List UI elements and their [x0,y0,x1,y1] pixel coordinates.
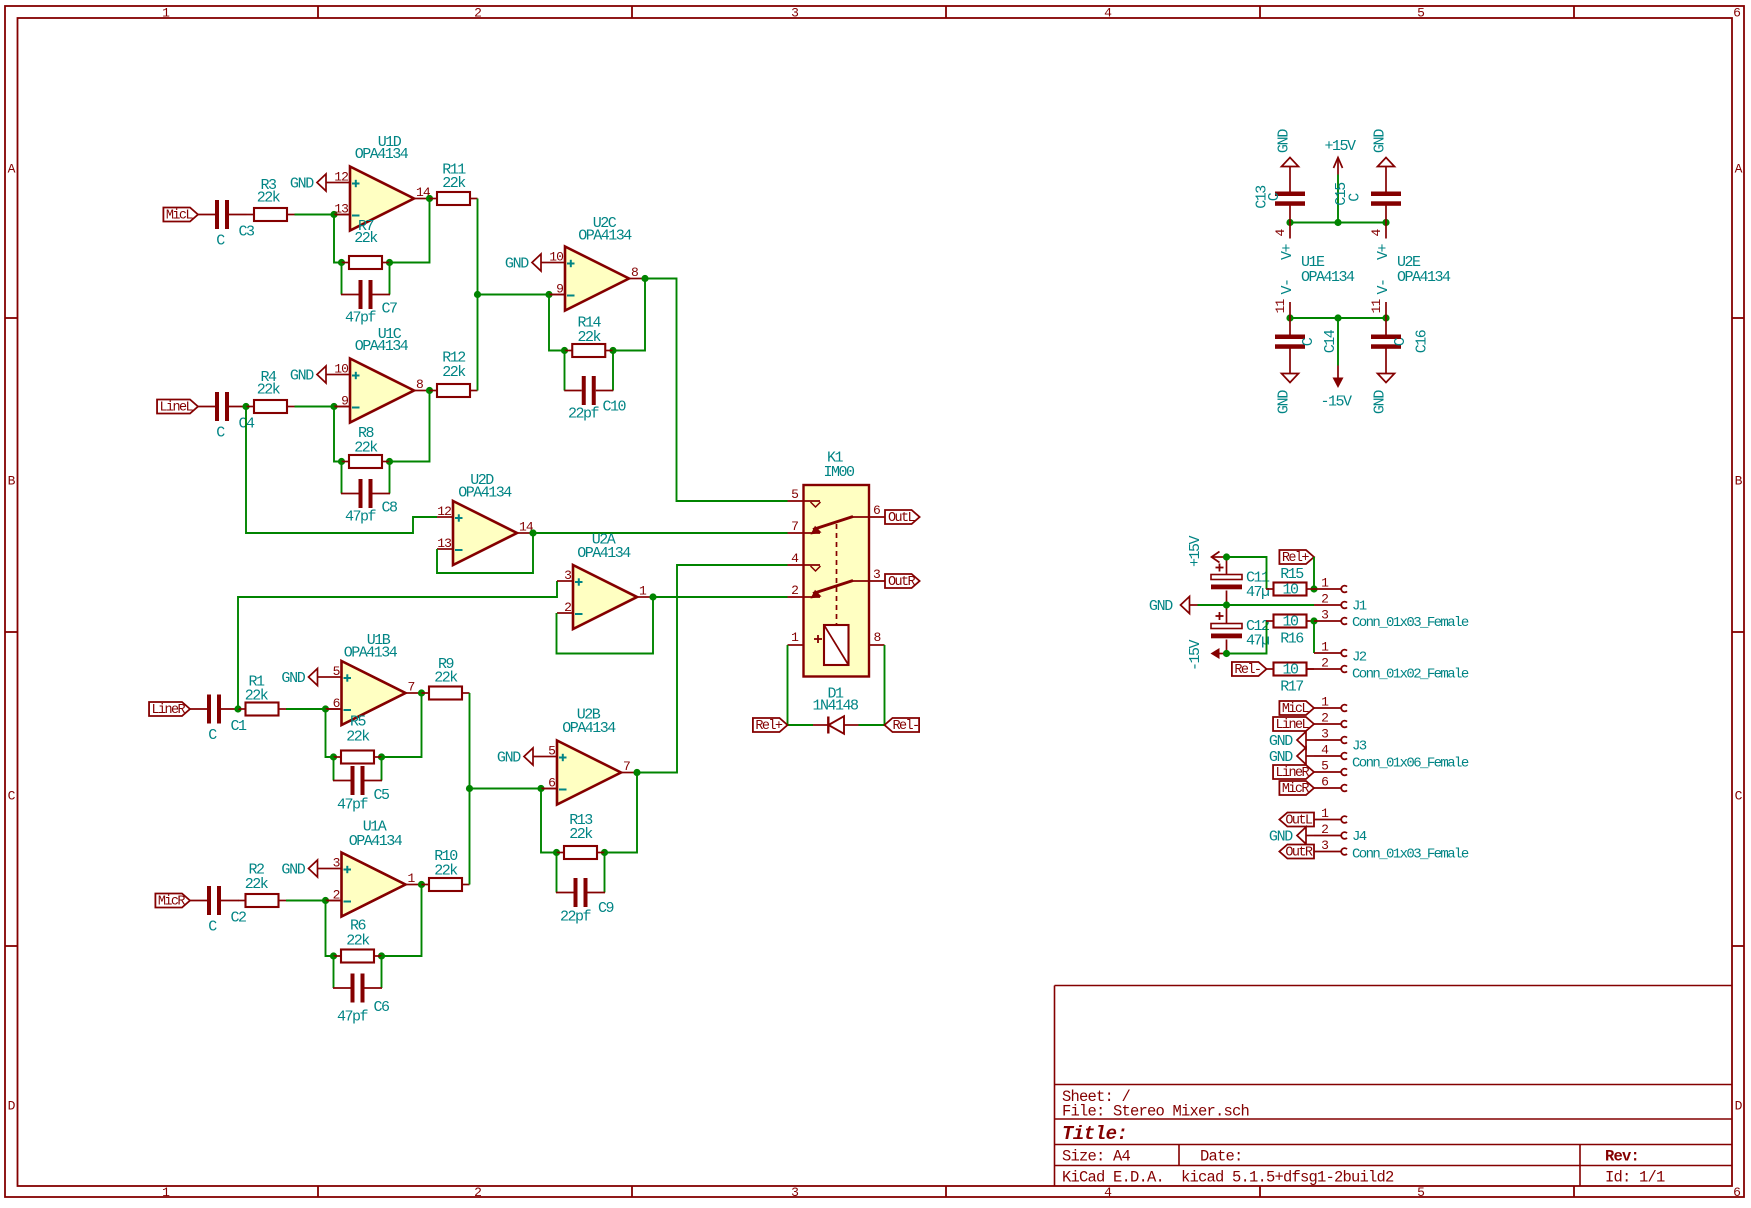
svg-text:C: C [216,233,225,250]
op-amp U1E power unit [1273,223,1355,319]
svg-text:2: 2 [1321,822,1328,837]
svg-text:10: 10 [1282,582,1299,599]
svg-text:OPA4134: OPA4134 [578,228,632,245]
svg-text:47pf: 47pf [337,797,369,814]
wire [1337,175,1339,223]
node left sum [474,291,481,298]
svg-text:C3: C3 [239,224,256,241]
junction [1382,314,1389,321]
power symbol GND [1276,366,1299,415]
wire feedback to output [390,199,430,263]
global label Rel- [885,718,920,734]
node U1C inverting input [330,403,337,410]
wire [334,407,342,462]
svg-text:1: 1 [639,584,647,599]
svg-text:Size: A4: Size: A4 [1062,1148,1131,1166]
wire feedback to output [382,885,422,957]
power symbol -15V (rotated) [1187,640,1227,672]
power symbol GND [1269,732,1314,751]
svg-text:10: 10 [1282,662,1299,679]
svg-text:Conn_01x06_Female: Conn_01x06_Female [1352,756,1469,772]
svg-text:2: 2 [791,583,798,598]
svg-text:2: 2 [474,1185,482,1200]
node LineL [242,403,249,410]
wire [859,645,885,725]
wire [295,214,335,216]
svg-text:C1: C1 [231,718,248,735]
svg-text:OutR: OutR [888,575,916,590]
svg-text:2: 2 [1321,592,1328,607]
wire [557,597,654,654]
pin J2-2 [1314,656,1347,673]
svg-text:LineR: LineR [152,703,186,718]
power symbol GND [505,254,549,273]
resistor R12 [430,350,478,398]
svg-text:J4: J4 [1352,829,1367,845]
capacitor C14 [1275,318,1339,366]
global label Rel+ [753,718,788,734]
junction [386,458,393,465]
capacitor C3 [198,200,256,250]
junction [553,849,560,856]
global label MicL [1279,701,1314,717]
svg-text:OPA4134: OPA4134 [355,146,409,163]
power symbol GND [290,366,334,385]
svg-text:Date:: Date: [1200,1148,1243,1166]
svg-text:R16: R16 [1280,631,1304,648]
global label MicR [1279,781,1314,797]
svg-text:5: 5 [548,744,555,759]
svg-text:22pf: 22pf [568,406,600,423]
wire feedback to output [382,693,422,757]
svg-text:1: 1 [162,6,170,21]
svg-text:22k: 22k [354,440,378,457]
capacitor C1 [190,695,248,745]
svg-text:File: Stereo Mixer.sch: File: Stereo Mixer.sch [1062,1103,1249,1121]
svg-text:D: D [1735,1099,1743,1114]
svg-text:GND: GND [1149,598,1173,615]
svg-text:LineR: LineR [1276,766,1310,781]
wire [541,789,557,853]
svg-text:OPA4134: OPA4134 [1397,269,1451,286]
svg-text:7: 7 [791,519,798,534]
resistor R14 [565,315,613,358]
wire feedback to output [613,279,645,351]
wire [564,351,566,391]
capacitor C8 [341,479,398,526]
connector J1 [1352,599,1469,632]
svg-text:A: A [8,162,16,177]
pin J1-3 [1314,608,1347,625]
wire [437,533,533,573]
svg-text:OPA4134: OPA4134 [577,545,631,562]
junction [378,753,385,760]
svg-text:GND: GND [1269,733,1293,750]
power symbol GND [1372,366,1395,415]
wire [549,295,565,351]
svg-text:GND: GND [290,176,314,193]
svg-text:2: 2 [333,888,340,903]
wire pin stub [549,294,565,296]
svg-text:OutL: OutL [1285,814,1313,829]
svg-text:8: 8 [416,377,423,392]
capacitor C5 [333,766,390,814]
pin J1-1 [1314,576,1347,593]
junction [338,458,345,465]
svg-text:LineL: LineL [1276,718,1310,733]
global label MicR [155,894,190,910]
svg-text:D: D [8,1099,16,1114]
capacitor C11 [1211,557,1270,605]
wire [1313,557,1315,589]
wire [469,693,471,885]
svg-text:Rel-: Rel- [1234,663,1260,678]
wire [470,788,542,790]
node U1D inverting input [330,211,337,218]
svg-text:KiCad E.D.A. kicad 5.1.5+dfsg: KiCad E.D.A. kicad 5.1.5+dfsg1-2build2 [1062,1169,1394,1187]
resistor R7 [342,218,390,269]
power symbol +15V [1324,138,1356,175]
svg-text:1: 1 [1321,640,1329,655]
junction [1310,617,1317,624]
wire [1313,621,1315,653]
power symbol GND [281,669,325,688]
svg-text:3: 3 [333,856,340,871]
global label OutR [1279,845,1314,861]
global label OutL [1279,813,1314,829]
svg-text:6: 6 [1733,1185,1741,1200]
junction [338,259,345,266]
svg-text:2: 2 [564,600,571,615]
svg-text:+15V: +15V [1187,536,1204,568]
wire [246,407,437,534]
node U1B output [418,689,425,696]
svg-text:B: B [8,474,16,489]
svg-text:A: A [1735,162,1743,177]
svg-text:OPA4134: OPA4134 [344,645,398,662]
wire pin stub [326,708,342,710]
wire [645,279,788,502]
power symbol GND [1269,827,1314,846]
capacitor C7 [341,280,397,327]
resistor R2 [238,862,286,908]
wire [1227,557,1267,589]
svg-text:2: 2 [474,6,482,21]
wire [381,956,383,988]
global label LineR [1273,765,1314,781]
resistor R11 [430,162,478,206]
wire [333,956,335,988]
svg-text:V-: V- [1279,279,1296,294]
svg-text:13: 13 [334,202,348,217]
power symbol GND [290,174,334,193]
svg-text:GND: GND [505,256,529,273]
node U2C output [641,275,648,282]
svg-text:3: 3 [791,1185,799,1200]
wire [533,532,788,534]
wire pin stub [541,788,557,790]
svg-text:12: 12 [437,504,451,519]
wire pin stub [334,406,350,408]
svg-text:C14: C14 [1322,329,1339,353]
svg-text:GND: GND [1372,390,1389,414]
svg-text:4: 4 [1369,228,1384,236]
svg-text:1: 1 [1321,695,1329,710]
junction [330,952,337,959]
svg-text:47pf: 47pf [337,1009,369,1026]
svg-text:10: 10 [549,250,563,265]
svg-text:Title:: Title: [1062,1123,1127,1145]
op-amp U1A [326,819,422,917]
resistor R4 [247,369,295,413]
svg-text:47pf: 47pf [345,310,377,327]
svg-text:22pf: 22pf [560,909,592,926]
svg-text:C: C [8,789,16,804]
svg-text:C5: C5 [374,787,391,804]
capacitor C4 [198,392,256,442]
capacitor C16 [1371,318,1431,366]
power symbol GND [1372,129,1395,175]
wire pin stub [326,900,342,902]
svg-text:C6: C6 [374,999,391,1016]
svg-text:2: 2 [1321,711,1328,726]
title block [1055,986,1733,1187]
pin J4-2 [1314,822,1347,839]
node U2C inverting input [545,291,552,298]
svg-text:Conn_01x03_Female: Conn_01x03_Female [1352,847,1469,863]
svg-text:GND: GND [290,368,314,385]
svg-text:4: 4 [1273,228,1288,236]
junction [1286,219,1293,226]
pin J3-5 [1314,759,1347,776]
wire [604,853,606,893]
svg-text:OPA4134: OPA4134 [458,485,512,502]
svg-text:B: B [1735,474,1743,489]
svg-text:Id: 1/1: Id: 1/1 [1605,1169,1665,1187]
svg-text:GND: GND [281,862,305,879]
wire [341,263,343,295]
global label Rel+ [1279,550,1314,566]
svg-text:C: C [208,919,217,936]
wire [1227,621,1267,654]
svg-text:5: 5 [333,664,340,679]
svg-text:5: 5 [1417,1185,1425,1200]
svg-text:22k: 22k [442,175,466,192]
capacitor C15 [1333,175,1401,223]
op-amp U1B [326,632,422,725]
global label LineL [1273,717,1314,733]
global label MicL [163,208,198,224]
svg-text:IM00: IM00 [823,464,855,481]
junction [1286,314,1293,321]
resistor R16 [1266,614,1314,648]
svg-text:22k: 22k [257,190,281,207]
op-amp U2D [437,472,534,565]
svg-text:22k: 22k [257,382,281,399]
node U2D output [529,529,536,536]
node U1A inverting input [322,897,329,904]
wire [341,462,343,494]
svg-text:5: 5 [1417,6,1425,21]
junction [386,259,393,266]
pin J3-2 [1314,711,1347,728]
svg-text:47pf: 47pf [345,509,377,526]
svg-text:MicR: MicR [1282,782,1310,797]
pin J2-1 [1314,640,1347,657]
capacitor C2 [190,886,247,936]
wire [653,596,788,598]
svg-text:5: 5 [791,487,798,502]
svg-text:1: 1 [791,630,799,645]
svg-text:22k: 22k [354,230,378,247]
resistor R15 [1266,566,1314,599]
svg-text:1: 1 [1321,576,1329,591]
svg-text:-15V: -15V [1320,394,1352,411]
node U1D output [426,195,433,202]
svg-text:22k: 22k [569,826,593,843]
global label LineL [157,400,198,416]
node U2B inverting input [537,785,544,792]
svg-text:J2: J2 [1352,650,1367,666]
svg-text:3: 3 [1321,608,1328,623]
op-amp U2A [557,532,653,630]
wire [477,199,479,391]
svg-text:Rev:: Rev: [1605,1148,1639,1166]
svg-text:Rel+: Rel+ [755,719,783,734]
wire [612,351,614,391]
svg-text:J3: J3 [1352,739,1367,755]
capacitor C13 [1254,175,1306,223]
svg-text:8: 8 [631,265,638,280]
svg-text:7: 7 [623,759,630,774]
svg-text:22k: 22k [346,729,370,746]
junction [1223,650,1230,657]
svg-text:Conn_01x02_Female: Conn_01x02_Female [1352,667,1469,683]
junction [1334,219,1341,226]
svg-text:OPA4134: OPA4134 [1301,269,1355,286]
svg-text:GND: GND [1372,129,1389,153]
svg-text:22k: 22k [577,329,601,346]
power symbol -15V [1320,366,1352,411]
svg-text:4: 4 [791,551,799,566]
pin J3-4 [1314,743,1347,760]
junction [1223,553,1230,560]
wire [389,462,391,494]
pin J4-1 [1314,806,1347,823]
wire [1290,317,1386,319]
svg-text:OutR: OutR [1285,846,1313,861]
svg-text:22k: 22k [245,876,269,893]
global label Rel- [1232,662,1267,678]
svg-text:R15: R15 [1280,566,1304,583]
wire [1198,604,1315,606]
svg-text:12: 12 [334,170,348,185]
power symbol GND [1276,129,1299,175]
svg-text:6: 6 [1321,775,1328,790]
svg-text:+15V: +15V [1324,138,1356,155]
svg-text:V+: V+ [1279,244,1296,261]
svg-text:22k: 22k [245,688,269,705]
power symbol GND [497,748,541,767]
svg-text:C9: C9 [598,900,614,917]
resistor R8 [342,425,390,468]
svg-text:Conn_01x03_Female: Conn_01x03_Female [1352,615,1469,631]
pin J3-1 [1314,695,1347,712]
junction [1382,219,1389,226]
resistor R3 [247,177,295,221]
node U2A output [649,593,656,600]
wire [286,900,326,902]
svg-text:1: 1 [408,871,416,886]
junction [378,952,385,959]
svg-text:C7: C7 [382,301,398,318]
svg-text:6: 6 [873,503,880,518]
svg-text:V-: V- [1375,279,1392,294]
node right sum [466,785,473,792]
node U1B inverting input [322,705,329,712]
svg-text:OPA4134: OPA4134 [355,338,409,355]
op-amp U1C [334,326,430,423]
node U1A output [418,881,425,888]
svg-text:11: 11 [1369,299,1384,314]
svg-text:4: 4 [1104,6,1112,21]
svg-text:C2: C2 [231,910,247,927]
junction [1310,585,1317,592]
svg-text:J1: J1 [1352,599,1367,615]
wire R17 to J2 pin2 [1307,668,1315,670]
wire feedback to output [390,391,430,462]
svg-text:9: 9 [556,282,563,297]
junction [330,753,337,760]
svg-text:13: 13 [437,536,451,551]
svg-text:-15V: -15V [1187,640,1204,672]
wire [381,757,383,781]
power symbol +15V (rotated) [1187,536,1227,568]
capacitor C12 [1211,605,1269,654]
wire [556,853,558,893]
diode D1 [812,686,859,734]
svg-text:Rel-: Rel- [893,719,919,734]
connector J2 [1352,650,1469,683]
svg-text:R17: R17 [1280,679,1303,696]
wire [1290,222,1386,224]
svg-text:22k: 22k [346,933,370,950]
svg-text:7: 7 [408,680,415,695]
svg-text:1: 1 [1321,806,1329,821]
op-amp U2E power unit [1369,223,1451,319]
svg-text:OPA4134: OPA4134 [349,833,403,850]
power symbol GND [1269,748,1314,767]
svg-text:4: 4 [1104,1185,1112,1200]
op-amp U2B [541,707,637,805]
svg-text:9: 9 [341,394,348,409]
wire [326,709,334,757]
relay K1 [788,450,886,677]
svg-text:6: 6 [1733,6,1741,21]
resistor R10 [422,848,470,891]
svg-text:Rel+: Rel+ [1282,551,1310,566]
op-amp U2C [549,215,645,311]
pin J3-3 [1314,727,1347,744]
wire [788,645,814,725]
svg-text:6: 6 [333,696,340,711]
wire [478,294,550,296]
wire pin stub [334,214,350,216]
wire [334,215,342,263]
resistor R13 [557,812,605,859]
pin J1-2 [1314,592,1347,609]
global label LineR [149,702,190,718]
